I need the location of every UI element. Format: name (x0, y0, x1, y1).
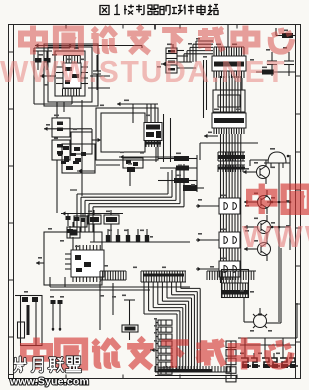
driver U4 (117, 102, 171, 162)
resistor R7 (158, 155, 197, 192)
connector comb J1 (218, 152, 245, 161)
wire long bottom nets (50, 277, 190, 290)
optocoupler U6 (196, 232, 240, 248)
component value labels (24, 30, 290, 355)
connector comb J5 (155, 366, 230, 376)
transistor Q1 (33, 51, 43, 70)
sensor parts row (61, 211, 123, 238)
capacitor C5 (67, 222, 80, 238)
discrete parts row (58, 146, 174, 186)
wire with left arrow (40, 74, 56, 78)
resistor R4 (276, 28, 296, 38)
svg-text:WWW.ST: WWW.ST (242, 219, 309, 254)
wire frame around U8 (44, 232, 102, 285)
connector header J7 (15, 296, 42, 346)
latch U3 (212, 113, 246, 134)
capacitor C7 (88, 55, 110, 90)
connector comb J2 (218, 165, 245, 172)
wire box (71, 132, 92, 154)
wire from frame to U2 (227, 25, 229, 47)
wire right rail (250, 155, 291, 322)
title text 图1控制器的硬件电路 (100, 5, 218, 15)
resistor R6 (160, 166, 197, 171)
wire left rail of U1 (34, 48, 72, 104)
resistor network RN1 (106, 229, 149, 242)
resistor R10 (88, 210, 101, 224)
microcontroller U2 (212, 47, 246, 78)
svg-text:WWW.STUDA.NET: WWW.STUDA.NET (0, 55, 286, 90)
transistor Q3 (243, 160, 270, 184)
connector comb J6 (207, 270, 256, 299)
wire arrow into bus (200, 134, 258, 160)
wire arrow right (92, 129, 101, 154)
capacitor C1 (267, 52, 277, 76)
terminal block TB2 (262, 353, 280, 368)
resistor R5 (158, 156, 197, 161)
op-amp U1 (56, 56, 88, 97)
wires from R10 R11 down (73, 224, 111, 250)
transistor Q2 (43, 51, 52, 70)
wire pair down-left of U2 (204, 60, 207, 118)
buzzer LS1 (264, 152, 290, 168)
transistor Q4 (244, 190, 290, 214)
motor M1 (244, 248, 281, 328)
resistor R3 (256, 70, 295, 75)
capacitor C2 (284, 52, 294, 76)
wire bundle middle (77, 164, 184, 232)
bus wires to U2 (184, 41, 213, 62)
wire loops under U2 (213, 78, 245, 112)
wire U1 down-left (57, 102, 64, 118)
svg-text:www.Syue.com: www.Syue.com (9, 376, 89, 388)
wire arrow lower (77, 169, 95, 173)
controller U8 (36, 245, 104, 282)
connector comb J3 (100, 271, 126, 280)
sensor probe (122, 300, 138, 340)
wire verticals (100, 281, 113, 330)
terminal block TB1 (241, 353, 260, 368)
wire stub to bundle (70, 189, 77, 191)
wire loop around U1 (44, 44, 98, 106)
wire bottom-right rails (238, 303, 297, 353)
relay K2 box (52, 140, 70, 213)
transistor Q5 (244, 215, 290, 239)
fuse ladder (226, 341, 236, 382)
long vertical net line (81, 100, 83, 196)
wire U1 top to rail (35, 43, 142, 48)
optocoupler U7 (196, 261, 240, 277)
transistor Q6 (244, 237, 271, 261)
wire horizontal net (90, 241, 190, 243)
terminal block TB3 (280, 353, 298, 368)
bus fan staircase (144, 282, 200, 372)
resistor R11 (104, 210, 119, 224)
connector comb J4 (141, 271, 186, 282)
data bus vertical (221, 76, 241, 283)
crystal Y1 network (155, 25, 196, 74)
wire pair (51, 300, 63, 331)
optocoupler U5 (196, 198, 240, 214)
relay K1 box (44, 102, 92, 137)
diode D1 (183, 185, 204, 191)
resistor ladder RN2 (150, 318, 172, 374)
wire frame around U4 (62, 108, 158, 173)
